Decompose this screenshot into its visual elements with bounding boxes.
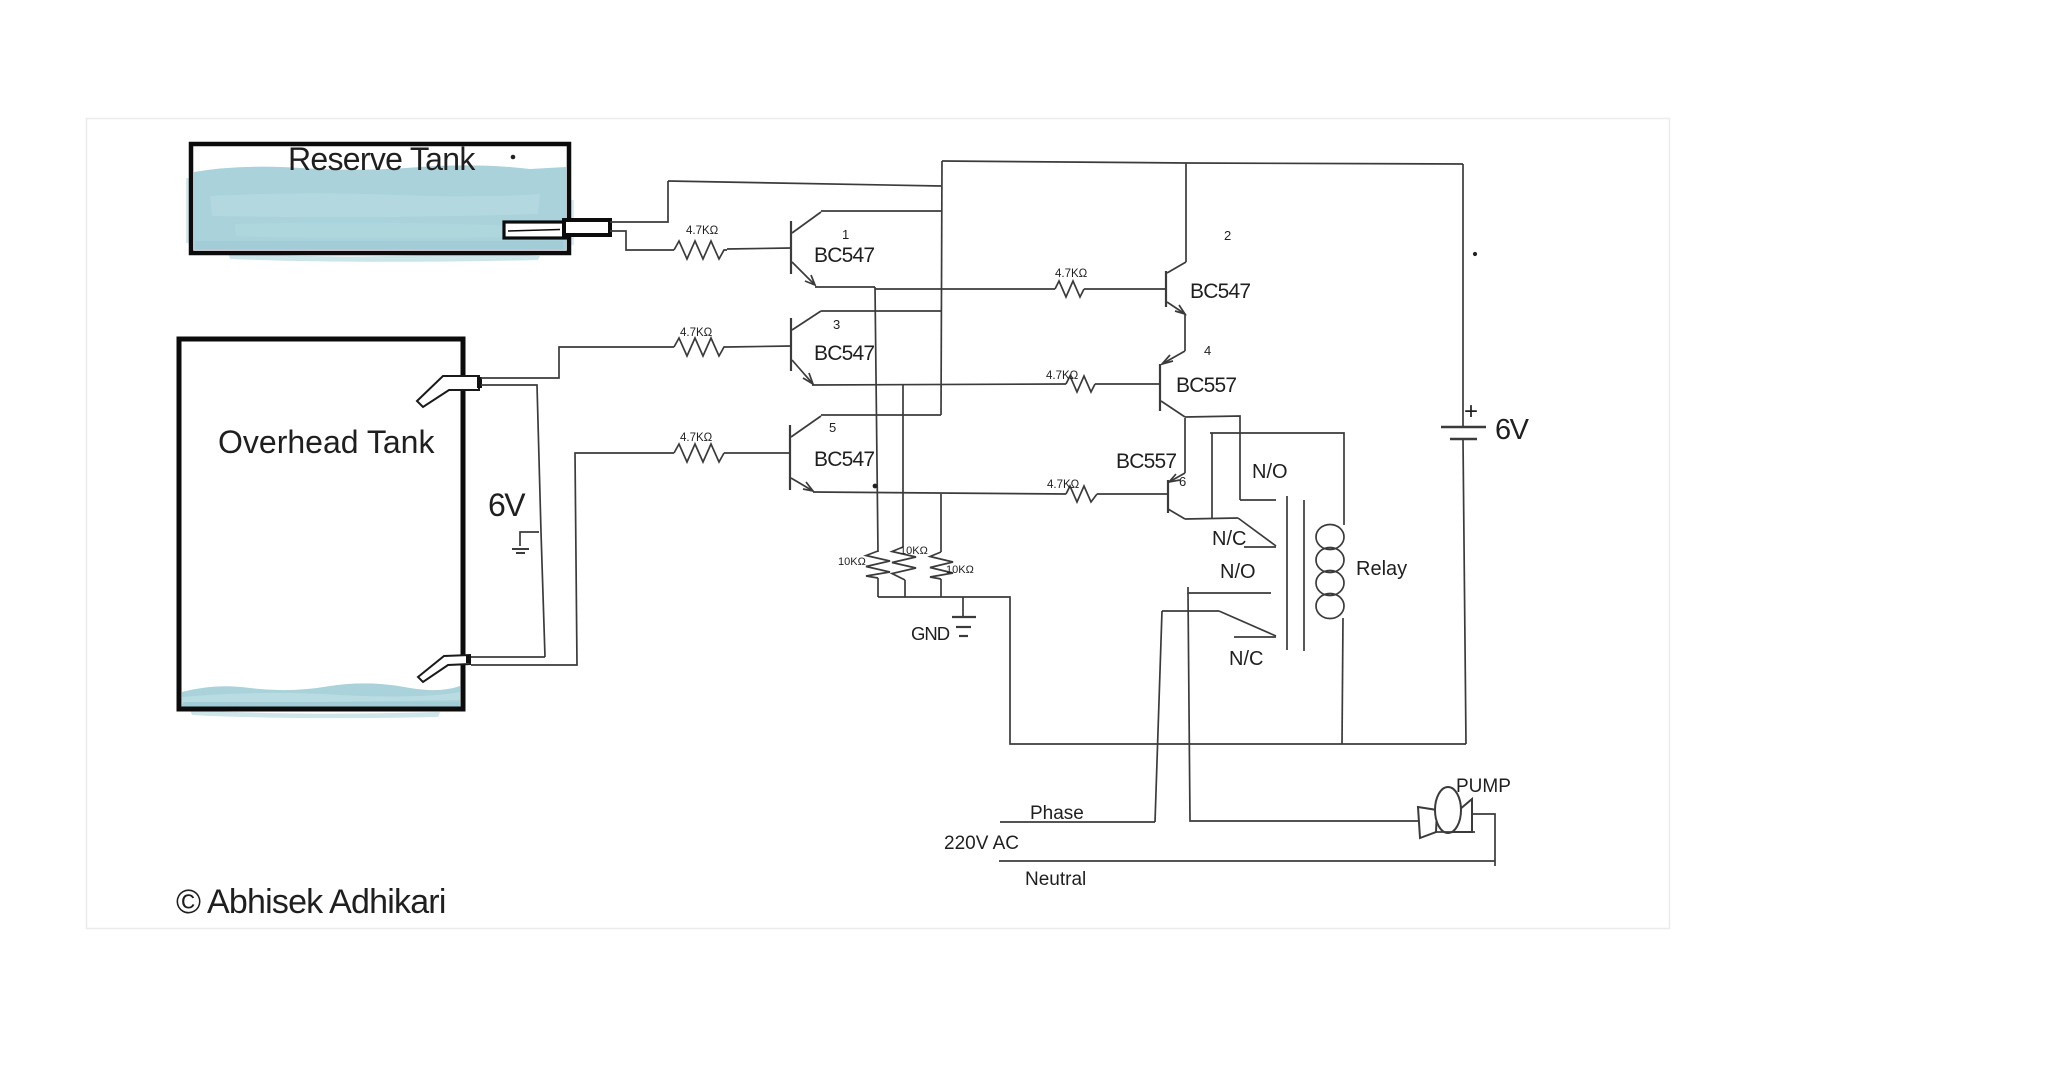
relay contact2 NC bar [1234,636,1276,638]
resistor R6 4.7K zigzag [1066,486,1097,502]
wire Q2 emitter down [1184,314,1186,351]
bus vertical left column [941,161,942,415]
pump motor left cone [1418,807,1437,838]
ground symbol [952,597,976,636]
svg-text:4.7KΩ: 4.7KΩ [1046,370,1079,382]
svg-text:5: 5 [829,420,836,435]
svg-text:BC547: BC547 [814,448,874,471]
svg-text:10KΩ: 10KΩ [900,545,928,557]
wire blade2 feed [1162,610,1219,612]
wire R6 to Q6 base [1097,493,1168,495]
dot mark in reserve tank [511,155,516,160]
wire R10 leg [940,494,942,552]
wire probe lower terminal 2 to R5 [471,453,674,665]
canvas frame [87,119,1670,929]
svg-text:Overhead Tank: Overhead Tank [218,424,435,460]
overhead tank box [179,339,463,709]
battery 6V top wire [1462,164,1464,426]
wire R2 to Q2 base [1084,288,1166,290]
svg-text:4.7KΩ: 4.7KΩ [680,432,713,444]
svg-text:© Abhisek Adhikari: © Abhisek Adhikari [176,883,446,921]
svg-text:Neutral: Neutral [1025,869,1086,890]
svg-text:Relay: Relay [1356,558,1407,580]
ground hook 6V [512,532,539,553]
svg-text:3: 3 [833,317,840,332]
svg-text:4.7KΩ: 4.7KΩ [1055,268,1088,280]
wire probe upper to R3 [481,347,674,378]
pump motor body [1435,787,1461,833]
wire probe to node bus (sloped) [668,181,941,186]
svg-text:220V AC: 220V AC [944,833,1019,854]
resistor R9 10K zigzag [892,547,916,580]
wire R1 to Q1 base [727,248,791,249]
svg-text:4.7KΩ: 4.7KΩ [680,327,713,339]
overhead probe upper [417,376,482,407]
svg-text:BC547: BC547 [1190,280,1250,303]
battery plates [1441,427,1486,439]
svg-text:BC557: BC557 [1176,374,1236,397]
wire Q4 collector node [1185,416,1240,500]
pump motor right cone [1450,799,1472,832]
svg-text:N/C: N/C [1212,528,1246,550]
svg-text:4.7KΩ: 4.7KΩ [1047,479,1080,491]
resistor R2 4.7K zigzag [1055,281,1084,297]
relay contact1 NC bar [1244,546,1276,548]
top power rail [942,161,1463,164]
svg-text:6: 6 [1179,474,1186,489]
transistor Q6 BC557 [1168,473,1185,519]
svg-text:6V: 6V [488,487,526,523]
wire Q5 collector to bus corner [821,414,941,416]
relay coil loops [1316,525,1344,619]
resistor R4 4.7K zigzag [1066,376,1095,392]
wire R3 to Q3 base [727,346,791,347]
reserve tank sensor probe tip [564,220,610,235]
wire pole riser [1211,433,1213,519]
wire probe lower terminal 1 [471,656,545,658]
wire R8 to bus [877,578,879,597]
wire pump to neutral [1472,814,1495,866]
resistor R8 10K zigzag [866,551,890,578]
wire probe upper lower terminal down [481,385,545,657]
svg-text:GND: GND [911,623,950,644]
wire R8 leg from Q1 emitter [875,287,878,552]
wire R4 to Q4 base [1095,383,1160,385]
dot mark near battery [1473,252,1477,256]
battery bottom wire [1463,440,1466,744]
transistor Q3 BC547 [791,311,821,384]
wire R9 to bus [904,580,906,597]
wire Q1 emitter [815,286,875,288]
svg-text:N/C: N/C [1229,648,1263,670]
svg-text:+: + [1464,398,1478,425]
resistor R1 4.7K zigzag [674,241,727,259]
resistor R5 4.7K zigzag [674,444,724,462]
svg-text:10KΩ: 10KΩ [946,564,974,576]
resistor R3 4.7K zigzag [674,338,727,356]
wire contact2 NO to pump [1188,593,1419,821]
svg-text:10KΩ: 10KΩ [838,556,866,568]
svg-text:4: 4 [1204,343,1211,358]
wire Q1 collector to bus [821,210,942,212]
transistor Q2 BC547 [1166,262,1186,314]
wire R10 to bus [940,579,942,597]
svg-text:BC547: BC547 [814,244,874,267]
wire Q2 collector to rail [1185,163,1187,262]
svg-text:2: 2 [1224,228,1231,243]
wire Q5 emitter to R6 [813,492,1066,494]
relay contact2 blade [1219,611,1276,636]
svg-text:Reserve Tank: Reserve Tank [288,141,476,177]
wire node to R2 [875,288,1055,290]
wire Q3 collector to bus [821,310,941,312]
svg-text:4.7KΩ: 4.7KΩ [686,225,719,237]
transistor Q1 BC547 [791,212,821,285]
wire probe upper terminal [610,181,668,222]
relay contact1 NO bar [1240,499,1276,501]
svg-text:N/O: N/O [1252,461,1288,483]
wire Q4 collector to Q6 emitter [1184,418,1186,473]
svg-text:Phase: Phase [1030,803,1084,824]
wire R9 leg [902,385,904,547]
relay armature bar left [1286,496,1288,650]
pump base line [1436,831,1475,833]
transistor Q4 BC557 [1160,351,1185,417]
reserve tank sensor probe body [504,222,566,238]
wire relay coil to ground bus [1342,618,1343,744]
relay contact2 NO bar [1188,587,1271,593]
reserve tank water fill [186,165,574,261]
svg-text:6V: 6V [1495,414,1530,446]
wire Q6 collector to contact pole [1185,518,1238,519]
reserve tank box [191,144,569,253]
wire phase riser [1155,611,1162,822]
svg-text:N/O: N/O [1220,561,1256,583]
wire phase [1000,821,1155,823]
svg-text:PUMP: PUMP [1456,776,1511,797]
svg-text:BC547: BC547 [814,342,874,365]
wire R5 to Q5 base [724,452,790,454]
svg-text:1: 1 [842,227,849,242]
wire neutral [999,860,1495,862]
overhead tank water fill [182,683,460,718]
overhead probe lower [418,655,471,682]
svg-text:BC557: BC557 [1116,450,1176,473]
transistor Q5 BC547 [790,416,821,491]
wire Q3 emitter / R4 input [812,384,1066,385]
ground bus wire [878,597,1466,744]
resistor R10 10K zigzag [930,552,953,579]
relay armature bar right [1303,500,1305,651]
wire pole to relay coil [1210,433,1344,525]
wire probe lower terminal to R1 [610,231,674,250]
relay contact1 blade [1238,518,1276,546]
junction dot [873,484,878,489]
